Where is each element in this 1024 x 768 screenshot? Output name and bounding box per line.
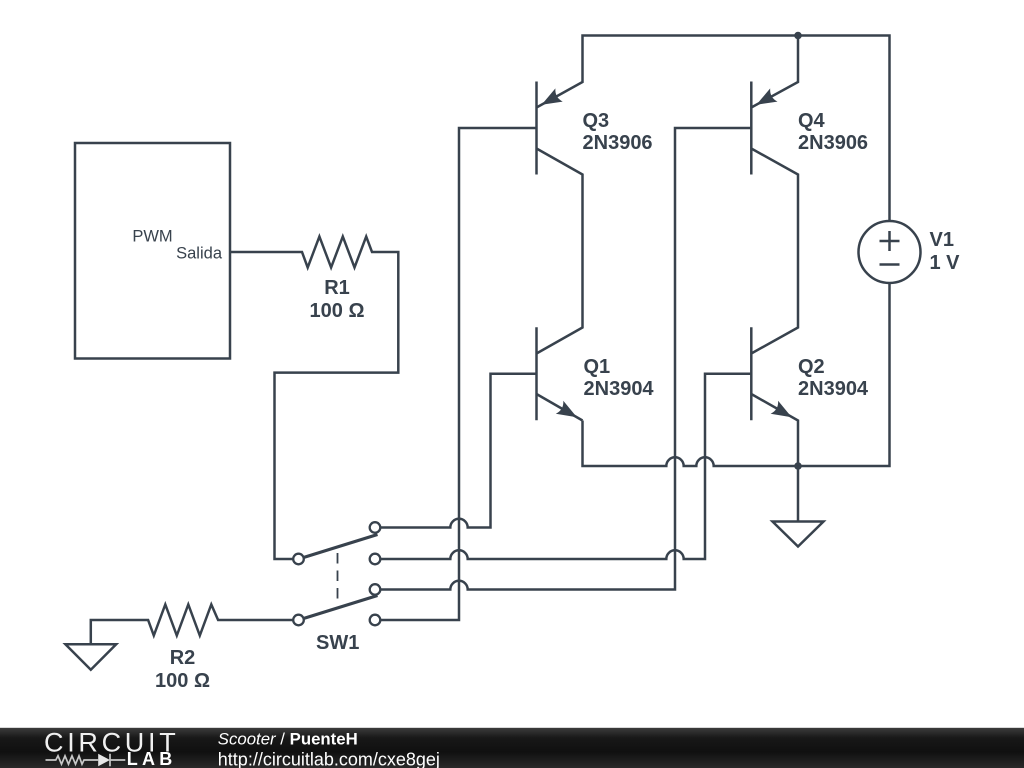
svg-text:2N3904: 2N3904: [798, 378, 869, 400]
svg-text:2N3906: 2N3906: [583, 132, 653, 154]
svg-text:PWM: PWM: [132, 228, 172, 246]
svg-text:Q2: Q2: [798, 356, 825, 378]
svg-text:Q3: Q3: [583, 110, 610, 132]
svg-text:Scooter / PuenteH: Scooter / PuenteH: [218, 729, 358, 748]
svg-text:http://circuitlab.com/cxe8gej: http://circuitlab.com/cxe8gej: [218, 749, 440, 768]
svg-text:2N3906: 2N3906: [798, 132, 868, 154]
svg-text:100 Ω: 100 Ω: [155, 670, 210, 692]
svg-text:100 Ω: 100 Ω: [310, 300, 365, 322]
svg-text:Q4: Q4: [798, 110, 826, 132]
svg-text:2N3904: 2N3904: [584, 378, 655, 400]
svg-text:V1: V1: [930, 229, 954, 251]
svg-text:1 V: 1 V: [930, 252, 961, 274]
svg-text:R2: R2: [170, 647, 196, 669]
svg-text:Q1: Q1: [584, 356, 611, 378]
svg-text:R1: R1: [324, 277, 350, 299]
svg-text:Salida: Salida: [176, 245, 223, 263]
svg-text:LAB: LAB: [127, 749, 177, 768]
svg-text:SW1: SW1: [316, 632, 359, 654]
